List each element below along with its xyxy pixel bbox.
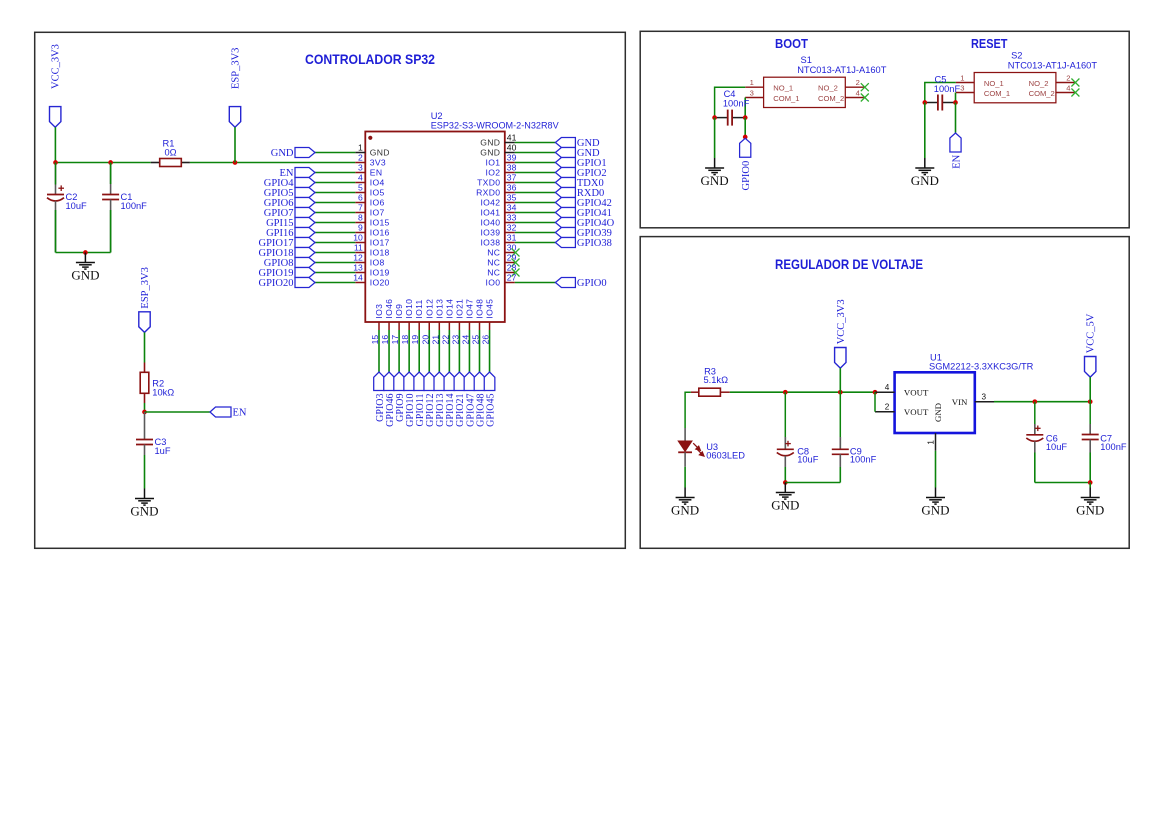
svg-text:VCC_3V3: VCC_3V3 xyxy=(51,44,62,89)
section box CONTROLADOR SP32 xyxy=(35,32,626,548)
svg-text:EN: EN xyxy=(951,154,962,168)
label C7 100nF xyxy=(1100,433,1127,452)
svg-text:GPIO45: GPIO45 xyxy=(485,394,496,427)
global label GPIO13 xyxy=(434,372,446,427)
svg-text:GND: GND xyxy=(480,148,500,158)
wire xyxy=(839,368,841,392)
svg-text:29: 29 xyxy=(507,253,517,263)
U2 pin 7 IO7 xyxy=(355,203,384,218)
svg-text:GND: GND xyxy=(71,267,99,282)
svg-text:COM_2: COM_2 xyxy=(818,94,844,103)
svg-text:IO6: IO6 xyxy=(370,198,385,208)
wire to GPIO0 xyxy=(744,118,746,137)
label R3 5.1k&#937; xyxy=(704,366,729,384)
global label GPIO41 xyxy=(555,208,612,219)
svg-text:IO40: IO40 xyxy=(480,218,500,228)
svg-text:IO0: IO0 xyxy=(486,278,501,288)
capacitor C1 xyxy=(102,163,119,253)
junction xyxy=(142,410,147,415)
junction xyxy=(1032,399,1037,404)
no-connect xyxy=(512,269,520,277)
global label GPIO2 xyxy=(555,168,606,179)
wire 3V3 rail xyxy=(730,391,875,393)
global label GPIO42 xyxy=(555,198,612,209)
global label GPIO11 xyxy=(414,372,426,426)
wire U1 pin2 to pin4 xyxy=(874,392,876,412)
global label GPIO18 xyxy=(258,248,315,259)
svg-text:GPIO20: GPIO20 xyxy=(258,278,293,289)
junction xyxy=(873,390,878,395)
wire xyxy=(110,210,112,253)
svg-text:10: 10 xyxy=(353,233,363,243)
svg-text:IO39: IO39 xyxy=(480,228,500,238)
U2 pin 36 RXD0 xyxy=(476,183,516,198)
wire xyxy=(489,330,491,372)
svg-text:COM_1: COM_1 xyxy=(773,94,799,103)
svg-text:IO42: IO42 xyxy=(480,198,500,208)
U2 pin 33 IO40 xyxy=(480,213,516,228)
global label GPIO0 xyxy=(740,138,753,190)
U2 pin 32 IO39 xyxy=(480,223,516,238)
wire xyxy=(398,330,400,372)
wire xyxy=(515,242,556,244)
U2 pin 13 IO19 xyxy=(353,263,389,278)
label S1 NTC013-AT1J-A160T xyxy=(797,55,887,75)
svg-text:10uF: 10uF xyxy=(797,455,819,465)
svg-text:GPIO0: GPIO0 xyxy=(577,278,607,289)
resistor R3 xyxy=(699,388,721,396)
global label GPIO38 xyxy=(555,238,612,249)
global label GPIO12 xyxy=(424,372,436,427)
capacitor C2 xyxy=(47,163,64,253)
label C2 10uF xyxy=(66,192,88,211)
svg-text:100nF: 100nF xyxy=(850,455,877,465)
svg-text:GND: GND xyxy=(921,502,949,517)
svg-text:GND: GND xyxy=(911,173,939,188)
svg-text:ESP_3V3: ESP_3V3 xyxy=(231,48,242,89)
global label EN xyxy=(210,407,247,418)
wire xyxy=(54,127,56,162)
wire xyxy=(1089,377,1091,402)
global label GPIO8 xyxy=(264,258,315,269)
svg-text:NC: NC xyxy=(487,268,500,278)
no-connect xyxy=(512,259,520,267)
label R1 0&#937; xyxy=(163,138,177,157)
global label GPIO5 xyxy=(264,188,315,199)
global label GPIO48 xyxy=(474,372,486,427)
capacitor C7 xyxy=(1082,402,1099,453)
svg-text:40: 40 xyxy=(507,143,517,153)
svg-text:IO9: IO9 xyxy=(394,304,404,319)
wire gnd link xyxy=(56,252,111,254)
U1 pin 3 xyxy=(975,392,994,401)
svg-text:NO_2: NO_2 xyxy=(818,84,838,93)
section box BOOT/RESET xyxy=(640,31,1129,228)
svg-text:5.1kΩ: 5.1kΩ xyxy=(704,375,729,385)
U2 pin 6 IO6 xyxy=(355,193,384,208)
capacitor C9 xyxy=(832,392,849,467)
resistor R1 pins xyxy=(151,162,190,164)
svg-text:14: 14 xyxy=(353,273,363,283)
wire xyxy=(378,330,380,372)
svg-text:NC: NC xyxy=(487,248,500,258)
section box REGULADOR DE VOLTAJE xyxy=(640,237,1129,549)
svg-text:VCC_3V3: VCC_3V3 xyxy=(836,299,847,344)
U2 pin 38 IO2 xyxy=(486,163,517,178)
wire VIN xyxy=(994,401,1090,403)
svg-text:SGM2212-3.3XKC3G/TR: SGM2212-3.3XKC3G/TR xyxy=(929,361,1034,371)
junction xyxy=(783,390,788,395)
global label GPIO4 xyxy=(264,178,315,189)
wire xyxy=(448,330,450,372)
wire R1 to U2 3V3 xyxy=(190,162,355,164)
junction xyxy=(1088,399,1093,404)
svg-text:27: 27 xyxy=(507,273,517,283)
svg-text:10kΩ: 10kΩ xyxy=(152,388,174,398)
global label GPIO39 xyxy=(555,228,612,239)
power flag ESP_3V3 (EN pullup) xyxy=(139,267,151,332)
svg-text:11: 11 xyxy=(354,243,363,253)
svg-text:S1: S1 xyxy=(801,55,812,65)
svg-text:1uF: 1uF xyxy=(155,446,171,456)
svg-text:EN: EN xyxy=(370,168,383,178)
svg-text:10uF: 10uF xyxy=(66,201,88,211)
U2 pin 39 IO1 xyxy=(486,153,517,168)
global label GPIO19 xyxy=(258,268,315,279)
svg-text:32: 32 xyxy=(507,223,517,233)
power flag VCC_3V3 xyxy=(50,44,62,127)
U2 pin 29 NC xyxy=(487,253,516,268)
global label GPIO7 xyxy=(264,208,315,219)
global label GPIO45 xyxy=(484,372,496,427)
U2 pin 28 NC xyxy=(487,263,516,278)
power flag VCC_3V3 xyxy=(835,299,847,368)
svg-text:IO5: IO5 xyxy=(370,188,385,198)
switch S2 pin 1 xyxy=(956,73,974,82)
global label EN xyxy=(950,133,963,169)
wire xyxy=(684,467,686,488)
capacitor C6 xyxy=(1026,402,1043,453)
wire xyxy=(144,332,146,362)
U2 pin 16 IO46 xyxy=(380,299,394,345)
ground xyxy=(1081,488,1100,505)
U2 pin 34 IO41 xyxy=(480,203,516,218)
junction xyxy=(712,115,717,120)
label U3 0603LED xyxy=(706,442,745,460)
svg-text:C4: C4 xyxy=(724,89,736,99)
wire R3 to LED xyxy=(685,392,691,428)
U2 pin 2 3V3 xyxy=(355,153,386,168)
svg-text:IO18: IO18 xyxy=(370,248,390,258)
no-connect xyxy=(512,249,520,257)
U2 pin 15 IO3 xyxy=(370,304,384,345)
U2 pin 19 IO11 xyxy=(410,299,424,344)
label U2 ESP32-S3-WROOM-2-N32R8V xyxy=(431,111,560,131)
capacitor C8 xyxy=(777,392,794,467)
svg-text:IO15: IO15 xyxy=(370,218,390,228)
wire S1 pin3 down xyxy=(744,98,746,118)
svg-text:3: 3 xyxy=(750,88,754,97)
svg-text:IO13: IO13 xyxy=(434,299,444,319)
svg-text:NTC013-AT1J-A160T: NTC013-AT1J-A160T xyxy=(797,65,887,75)
wire C8-C9 gnd link xyxy=(785,482,840,484)
resistor R2 xyxy=(140,372,149,393)
svg-text:GND: GND xyxy=(933,403,943,422)
wire xyxy=(1034,453,1036,483)
svg-text:39: 39 xyxy=(507,153,517,163)
wire xyxy=(315,172,355,174)
power flag ESP_3V3 xyxy=(229,48,241,128)
wire xyxy=(515,222,556,224)
U2 pin 18 IO10 xyxy=(400,299,414,345)
capacitor C4 pins xyxy=(715,117,746,119)
no-connect xyxy=(1071,89,1079,97)
U1 pin 1 xyxy=(926,433,935,451)
wire xyxy=(315,222,355,224)
label C9 100nF xyxy=(850,446,877,464)
label U1 SGM2212-3.3XKC3G/TR xyxy=(929,353,1034,372)
global label GPIO20 xyxy=(258,278,315,289)
resistor R1 xyxy=(160,159,182,167)
svg-text:NTC013-AT1J-A160T: NTC013-AT1J-A160T xyxy=(1008,60,1098,70)
wire to GND xyxy=(924,103,926,159)
svg-text:IO1: IO1 xyxy=(486,158,501,168)
global label GPIO1 xyxy=(555,158,606,169)
svg-text:GND: GND xyxy=(271,148,294,159)
svg-text:100nF: 100nF xyxy=(723,99,750,109)
svg-text:RXD0: RXD0 xyxy=(476,188,500,198)
svg-text:IO45: IO45 xyxy=(485,299,495,319)
wire S2 pin1 to C5 xyxy=(925,83,956,103)
U2 pin 23 IO21 xyxy=(450,299,464,345)
wire S2 pin3 down xyxy=(955,93,957,103)
svg-text:IO4: IO4 xyxy=(370,178,385,188)
U2 pin 20 IO12 xyxy=(420,299,434,345)
svg-text:2: 2 xyxy=(1066,73,1070,82)
global label TDX0 xyxy=(555,178,603,189)
U2 pin 40 GND xyxy=(480,143,516,158)
U1 port names xyxy=(904,387,968,422)
global label GPIO47 xyxy=(464,372,476,427)
wire xyxy=(515,162,556,164)
wire xyxy=(515,142,556,144)
svg-text:4: 4 xyxy=(856,88,860,97)
svg-text:IO8: IO8 xyxy=(370,258,385,268)
svg-text:IO10: IO10 xyxy=(404,299,414,319)
svg-text:IO19: IO19 xyxy=(370,268,390,278)
svg-text:34: 34 xyxy=(507,203,517,213)
svg-text:1: 1 xyxy=(750,78,754,87)
switch S1 pin 2 xyxy=(845,78,864,87)
junction xyxy=(922,100,927,105)
svg-text:12: 12 xyxy=(353,253,363,263)
wire xyxy=(515,192,556,194)
svg-text:VIN: VIN xyxy=(952,397,968,407)
ground xyxy=(776,483,795,500)
svg-text:IO16: IO16 xyxy=(370,228,390,238)
wire xyxy=(479,330,481,372)
capacitor C5 pins xyxy=(925,102,956,104)
junction xyxy=(1088,480,1093,485)
global label GPI16 xyxy=(266,228,315,239)
wire S1 pin1 to C4 xyxy=(715,87,746,117)
ic U1 SGM2212 body xyxy=(895,372,975,433)
wire xyxy=(839,467,841,483)
global label GPIO9 xyxy=(394,372,406,422)
power flag VCC_5V xyxy=(1085,313,1097,377)
U2 pin 17 IO9 xyxy=(390,304,404,345)
svg-text:9: 9 xyxy=(358,223,363,233)
junction xyxy=(783,480,788,485)
wire xyxy=(458,330,460,372)
svg-text:IO41: IO41 xyxy=(480,208,500,218)
junction xyxy=(108,160,113,165)
svg-text:S2: S2 xyxy=(1011,50,1022,60)
svg-text:COM_1: COM_1 xyxy=(984,89,1010,98)
wire xyxy=(144,455,146,489)
ic U2 ESP32-S3-WROOM body xyxy=(365,132,505,323)
svg-text:COM_2: COM_2 xyxy=(1029,89,1055,98)
junction xyxy=(743,135,748,140)
svg-text:1: 1 xyxy=(358,143,363,153)
svg-text:2: 2 xyxy=(885,403,890,412)
svg-text:28: 28 xyxy=(507,263,517,273)
svg-text:GND: GND xyxy=(1076,502,1104,517)
svg-text:6: 6 xyxy=(358,193,363,203)
svg-text:GND: GND xyxy=(130,503,158,518)
resistor R2 pins xyxy=(144,363,146,404)
wire xyxy=(408,330,410,372)
svg-text:100nF: 100nF xyxy=(934,84,961,94)
switch S2 contact names xyxy=(984,79,1055,98)
svg-text:VCC_5V: VCC_5V xyxy=(1086,313,1097,353)
wire xyxy=(1089,483,1091,488)
svg-text:IO7: IO7 xyxy=(370,208,385,218)
global label GPIO17 xyxy=(258,238,315,249)
svg-text:VOUT: VOUT xyxy=(904,387,929,397)
svg-text:4: 4 xyxy=(358,173,363,183)
svg-text:37: 37 xyxy=(507,173,517,183)
ground xyxy=(915,158,934,175)
global label GPIO14 xyxy=(444,372,456,427)
global label GND xyxy=(555,148,600,159)
U2 pin 3 EN xyxy=(355,163,382,178)
wire xyxy=(315,212,355,214)
U2 pin 12 IO8 xyxy=(353,253,384,268)
svg-text:0Ω: 0Ω xyxy=(164,147,176,157)
U2 pin 4 IO4 xyxy=(355,173,384,188)
label C6 10uF xyxy=(1046,433,1068,452)
wire xyxy=(388,330,390,372)
wire xyxy=(315,192,355,194)
switch S2 pin 4 xyxy=(1056,83,1075,92)
svg-text:35: 35 xyxy=(507,193,517,203)
U2 pin 31 IO38 xyxy=(480,233,516,248)
global label GND xyxy=(555,138,600,149)
svg-text:IO21: IO21 xyxy=(454,299,464,319)
svg-text:36: 36 xyxy=(507,183,517,193)
wire xyxy=(515,212,556,214)
global label GPIO3 xyxy=(374,372,386,422)
global label GPIO10 xyxy=(404,372,416,427)
svg-text:EN: EN xyxy=(233,407,247,418)
svg-text:8: 8 xyxy=(358,213,363,223)
junction xyxy=(233,160,238,165)
wire C6-C7 gnd link xyxy=(1035,482,1090,484)
U2 pin 24 IO47 xyxy=(460,299,474,345)
svg-text:IO38: IO38 xyxy=(480,238,500,248)
ic U2 pin1 mark xyxy=(368,136,372,140)
junction xyxy=(953,100,958,105)
wire xyxy=(935,451,937,488)
svg-text:4: 4 xyxy=(1066,83,1070,92)
svg-text:3: 3 xyxy=(358,163,363,173)
U2 pin 11 IO18 xyxy=(354,243,390,258)
led U3 0603LED xyxy=(678,428,704,467)
svg-text:100nF: 100nF xyxy=(1100,442,1127,452)
U2 pin 5 IO5 xyxy=(355,183,384,198)
svg-text:TXD0: TXD0 xyxy=(477,178,500,188)
svg-text:NO_2: NO_2 xyxy=(1029,79,1049,88)
switch S2 pin 3 xyxy=(956,83,974,92)
U2 pin 8 IO15 xyxy=(355,213,389,228)
global label GPIO6 xyxy=(264,198,315,209)
ground xyxy=(705,158,724,175)
global label GPIO0 xyxy=(555,278,606,289)
switch S1 pin 4 xyxy=(845,88,864,97)
svg-text:41: 41 xyxy=(507,133,517,143)
global label GPIO21 xyxy=(454,372,466,427)
wire xyxy=(515,172,556,174)
svg-text:10uF: 10uF xyxy=(1046,442,1068,452)
wire xyxy=(315,202,355,204)
svg-text:ESP_3V3: ESP_3V3 xyxy=(140,267,151,308)
wire xyxy=(438,330,440,372)
svg-text:GND: GND xyxy=(771,497,799,512)
U2 pin 14 IO20 xyxy=(353,273,389,288)
U2 pin 35 IO42 xyxy=(480,193,516,208)
resistor R3 pins xyxy=(691,391,730,393)
U1 pin 2 xyxy=(875,403,895,412)
svg-text:NO_1: NO_1 xyxy=(773,84,793,93)
svg-text:VOUT: VOUT xyxy=(904,407,929,417)
U2 pin 30 NC xyxy=(487,243,516,258)
svg-text:GND: GND xyxy=(480,138,500,148)
svg-text:GND: GND xyxy=(701,173,729,188)
svg-text:2: 2 xyxy=(358,153,363,163)
svg-text:IO17: IO17 xyxy=(370,238,390,248)
switch S1 pin 1 xyxy=(745,78,763,87)
junction xyxy=(838,390,843,395)
switch S2 NTC013-AT1J-A160T body xyxy=(974,73,1056,103)
wire EN xyxy=(145,411,211,413)
svg-text:CONTROLADOR SP32: CONTROLADOR SP32 xyxy=(305,51,435,67)
junction xyxy=(743,115,748,120)
switch S1 contact names xyxy=(773,84,844,103)
svg-text:13: 13 xyxy=(353,263,363,273)
svg-text:GND: GND xyxy=(370,148,390,158)
label C3 1uF xyxy=(155,437,171,456)
svg-text:IO47: IO47 xyxy=(464,299,474,319)
svg-text:GND: GND xyxy=(671,502,699,517)
U2 pin 26 IO45 xyxy=(481,299,495,345)
switch S1 pin 3 xyxy=(745,88,763,97)
svg-text:2: 2 xyxy=(856,78,860,87)
wire xyxy=(55,210,57,253)
svg-text:30: 30 xyxy=(507,243,517,253)
svg-text:IO14: IO14 xyxy=(444,299,454,319)
label S2 NTC013-AT1J-A160T xyxy=(1008,50,1098,70)
